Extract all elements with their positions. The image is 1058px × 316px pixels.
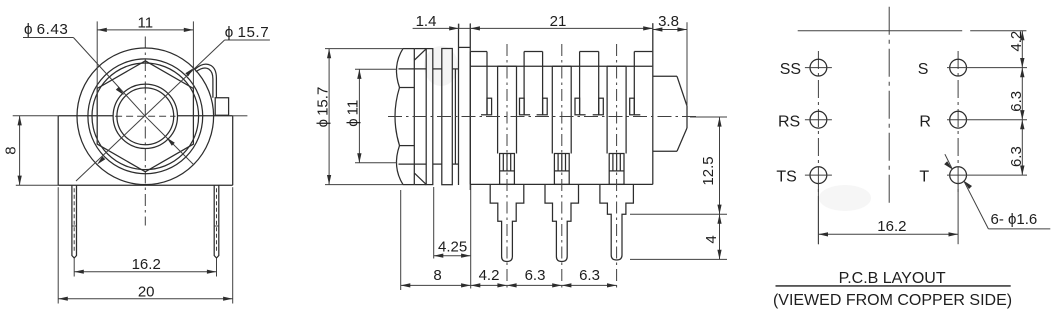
svg-text:T: T xyxy=(919,169,929,186)
svg-text:4.2: 4.2 xyxy=(479,267,500,284)
svg-text:20: 20 xyxy=(138,284,155,301)
svg-text:11: 11 xyxy=(138,15,154,32)
svg-text:ϕ 15.7: ϕ 15.7 xyxy=(314,87,331,128)
svg-text:ϕ 15.7: ϕ 15.7 xyxy=(225,24,269,41)
svg-text:12.5: 12.5 xyxy=(700,156,717,185)
svg-text:R: R xyxy=(919,113,931,130)
svg-text:6.3: 6.3 xyxy=(579,267,600,284)
svg-text:8: 8 xyxy=(433,267,441,284)
svg-text:16.2: 16.2 xyxy=(132,256,161,273)
svg-text:(VIEWED FROM COPPER SIDE): (VIEWED FROM COPPER SIDE) xyxy=(773,292,1012,309)
svg-text:6- ϕ1.6: 6- ϕ1.6 xyxy=(991,211,1038,228)
svg-text:21: 21 xyxy=(550,13,567,30)
svg-text:ϕ 11: ϕ 11 xyxy=(344,100,361,127)
svg-text:TS: TS xyxy=(776,169,796,186)
svg-text:3.8: 3.8 xyxy=(658,13,679,30)
svg-text:4.25: 4.25 xyxy=(438,239,467,256)
svg-text:6.3: 6.3 xyxy=(525,267,546,284)
svg-text:1.4: 1.4 xyxy=(416,13,437,30)
svg-text:SS: SS xyxy=(780,61,801,78)
svg-text:P.C.B LAYOUT: P.C.B LAYOUT xyxy=(839,270,946,287)
svg-text:S: S xyxy=(918,61,929,78)
svg-text:6.3: 6.3 xyxy=(1008,146,1025,167)
svg-text:4.2: 4.2 xyxy=(1008,31,1025,52)
svg-text:RS: RS xyxy=(778,113,800,130)
svg-text:4: 4 xyxy=(703,235,720,243)
svg-text:ϕ 6.43: ϕ 6.43 xyxy=(24,21,68,38)
svg-text:6.3: 6.3 xyxy=(1008,91,1025,112)
svg-text:8: 8 xyxy=(2,146,19,154)
svg-text:16.2: 16.2 xyxy=(877,218,906,235)
